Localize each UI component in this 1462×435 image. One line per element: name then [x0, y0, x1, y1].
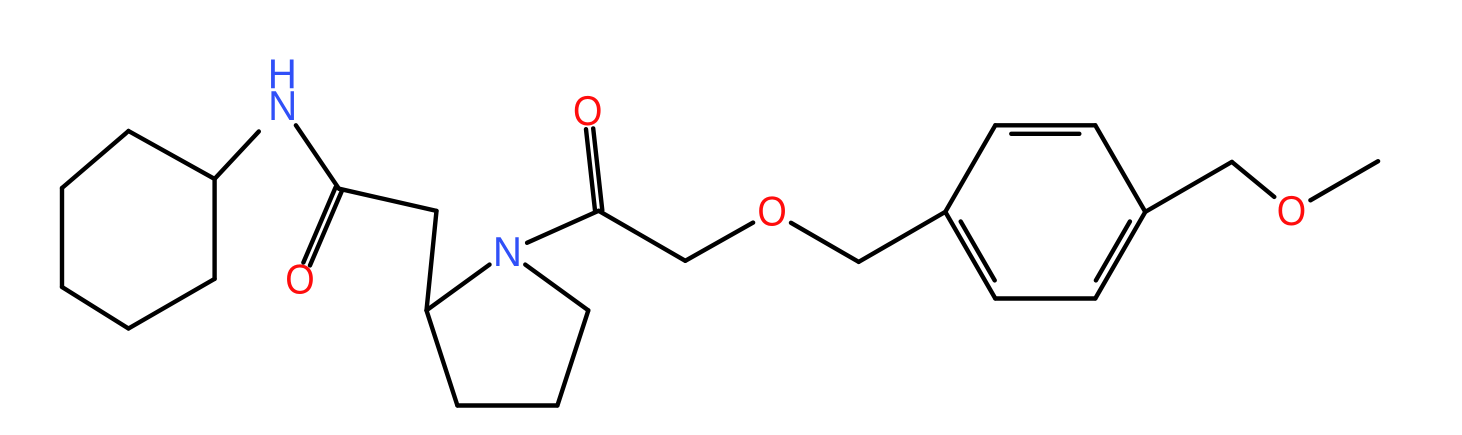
bond amide N - cyclohexyl C1: [215, 132, 259, 179]
svg-text:N: N: [268, 82, 297, 129]
pyrrolidine ring bond PR-N3: [525, 265, 588, 311]
benzene ring bond B1-B2: [945, 125, 995, 212]
bond CH2 - pyrrolidine C2: [427, 211, 437, 311]
cyclohexane ring bond Vf-Va: [129, 131, 215, 179]
svg-text:O: O: [1277, 188, 1306, 234]
bond phenyl C4 - CH2: [1145, 162, 1232, 212]
svg-text:O: O: [757, 189, 786, 235]
bond CH2 - ether O: [685, 223, 753, 261]
bond methoxy O - CH3: [1310, 161, 1378, 200]
cyclohexane ring bond Vc-Vd: [62, 287, 129, 329]
svg-text:N: N: [493, 228, 522, 275]
cyclohexane ring bond Ve-Vf: [62, 131, 129, 188]
benzene aromatic inner double line B4-B5: [1096, 222, 1130, 281]
bond ether O - benzylic CH2: [791, 223, 859, 262]
bond amide N - carbonyl C: [296, 125, 339, 188]
pyrrolidine ring bond PL-PBL: [427, 310, 458, 405]
pyrrolidine ring bond PBL-PBR: [457, 403, 557, 407]
svg-text:O: O: [573, 88, 602, 134]
svg-text:O: O: [285, 257, 314, 303]
benzene aromatic inner double line B6-B1: [961, 222, 995, 281]
bond carbonyl C - CH2: [339, 189, 437, 211]
benzene ring bond B6-B1: [945, 212, 995, 299]
cyclohexane ring bond Va-Vb: [212, 179, 216, 279]
benzene ring bond B3-B4: [1095, 125, 1145, 212]
bond pyrrolidine N - acyl C: [527, 211, 599, 243]
benzene ring bond B5-B6: [995, 296, 1095, 300]
bond acyl C - CH2: [599, 211, 686, 261]
cyclohexane ring bond Vd-Ve: [60, 188, 64, 287]
cyclohexane ring bond Vb-Vc: [129, 279, 215, 329]
benzene ring bond B4-B5: [1095, 212, 1145, 299]
benzene aromatic inner double line B2-B3: [1011, 132, 1079, 136]
bond CH2 - methoxy O: [1232, 162, 1274, 197]
amide C=O double bond: [303, 187, 335, 262]
acyl C=O double bond: [593, 128, 602, 210]
pyrrolidine ring bond PBR-PR: [557, 310, 588, 405]
benzene ring bond B2-B3: [995, 123, 1095, 127]
bond benzylic CH2 - phenyl ipso C: [859, 212, 946, 262]
pyrrolidine ring bond N3-PL: [427, 265, 490, 311]
